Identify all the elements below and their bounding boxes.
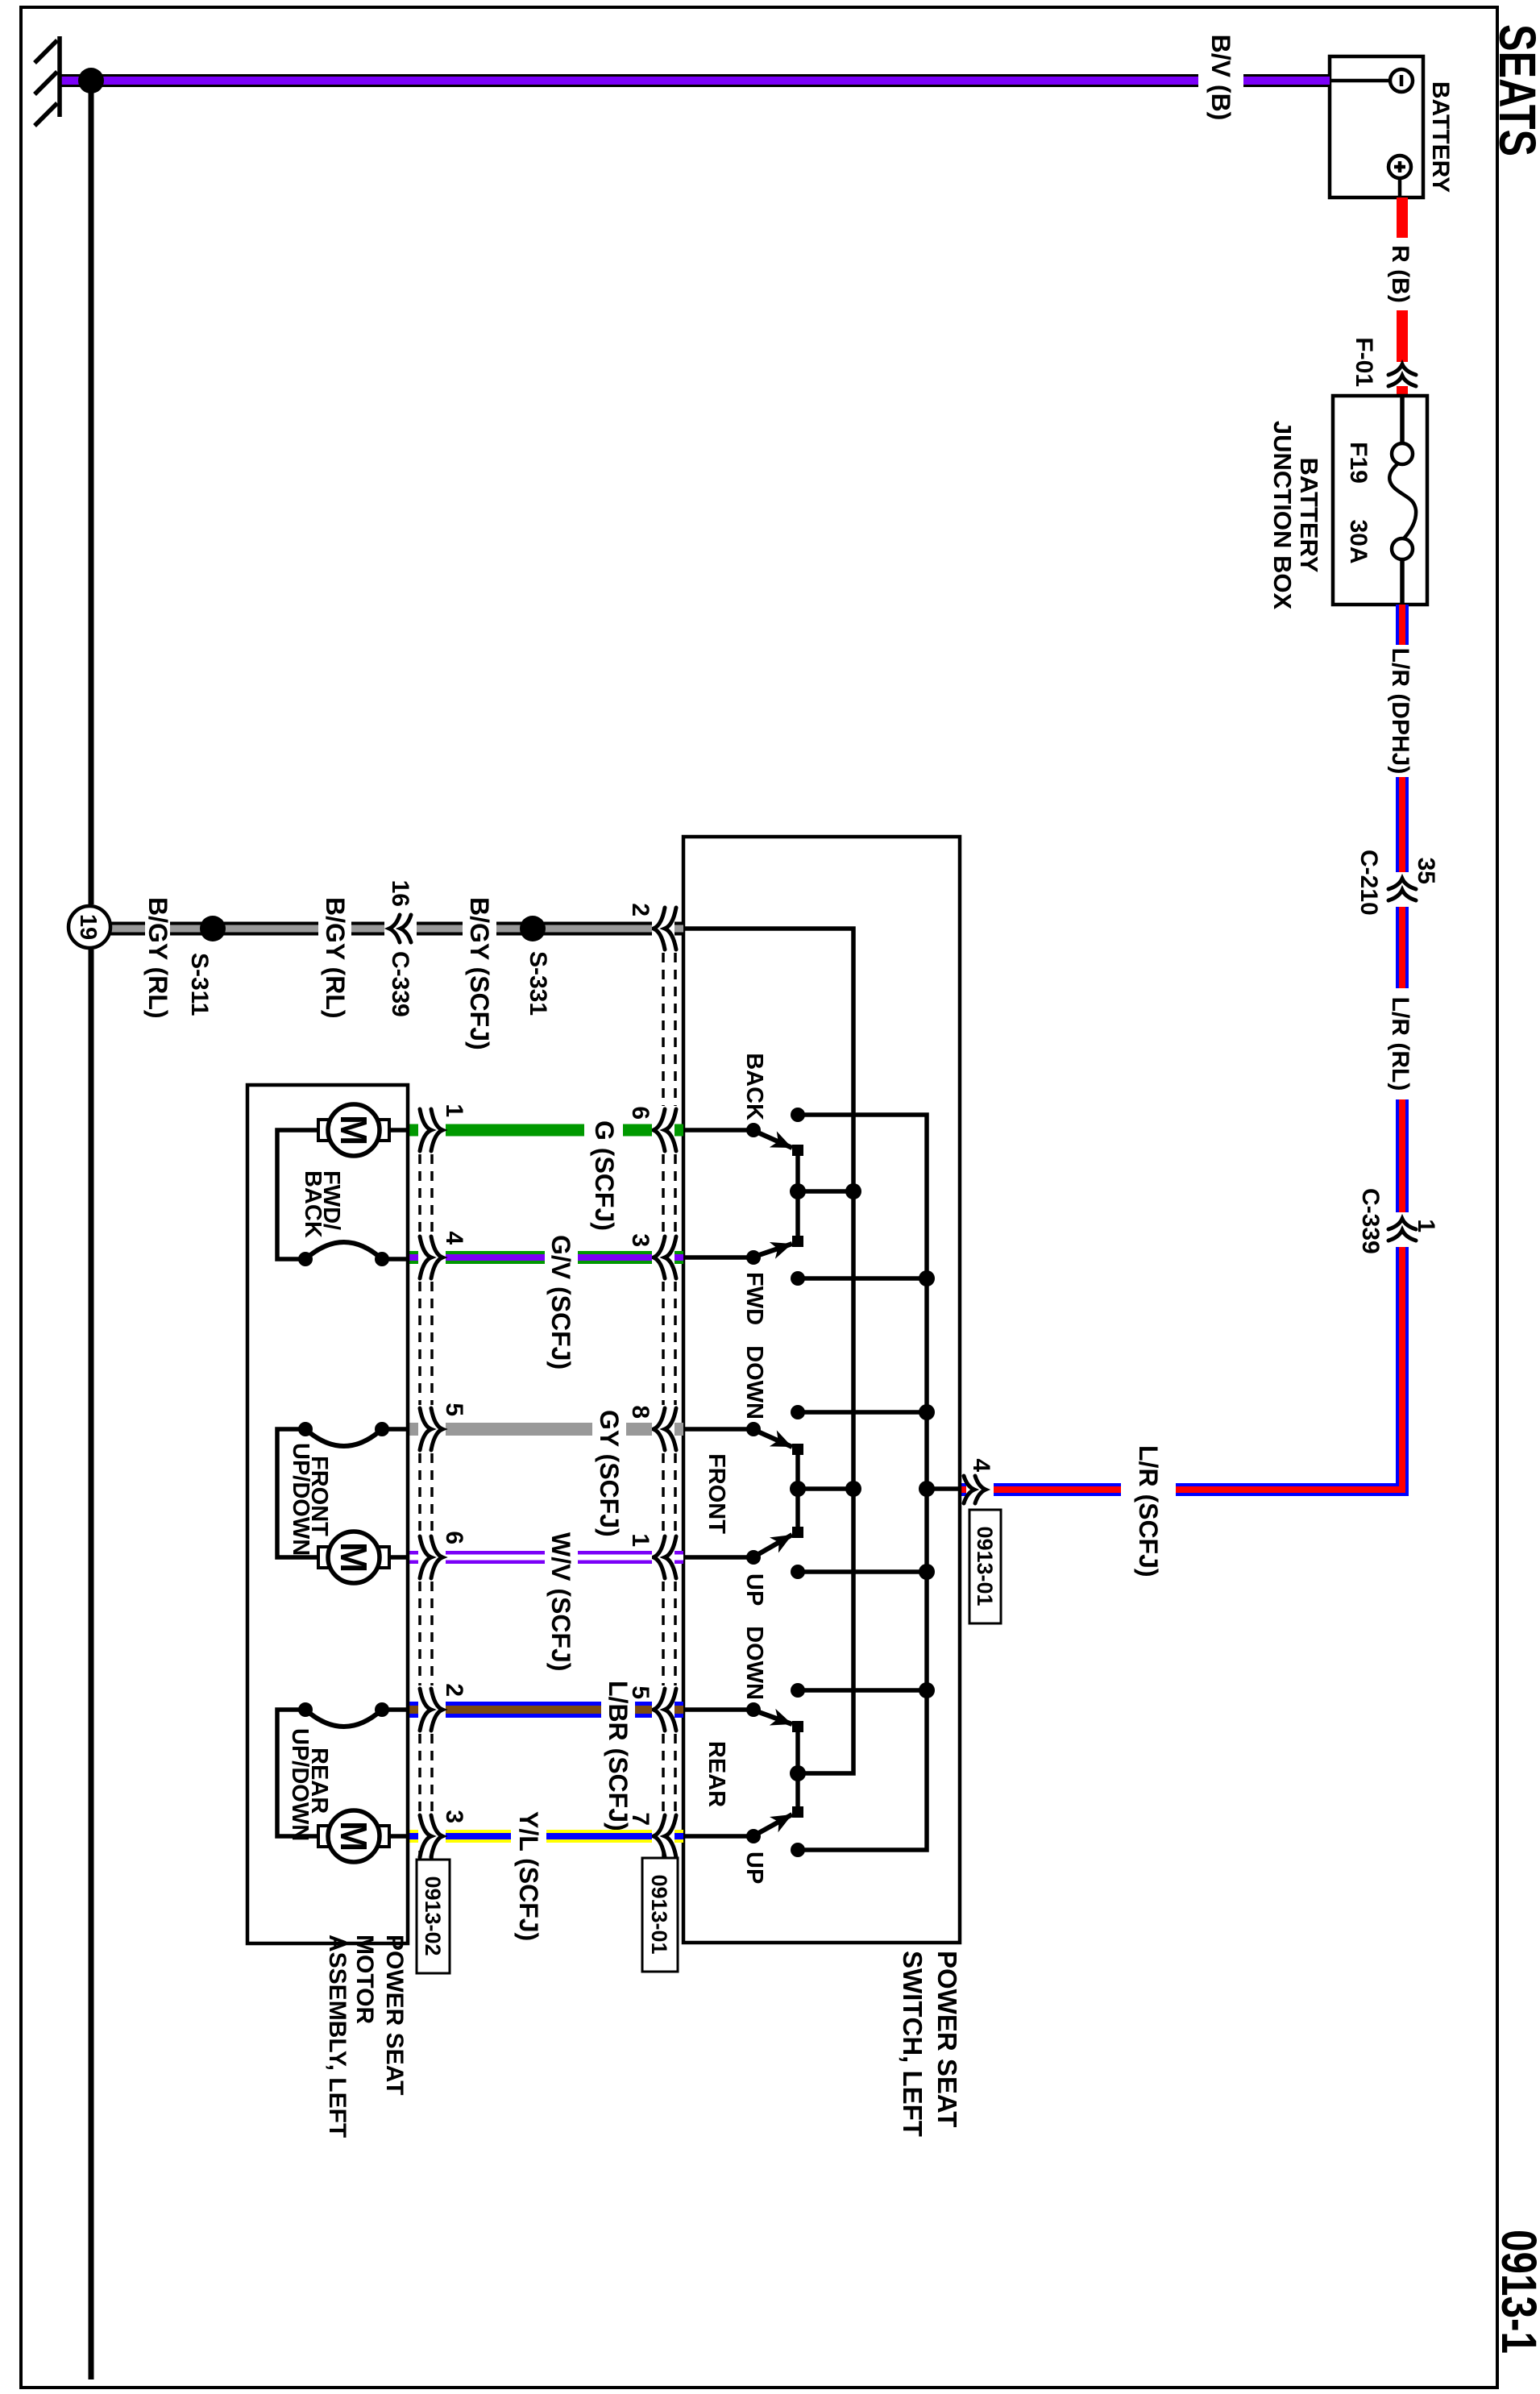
svg-text:C-339: C-339: [1357, 1188, 1384, 1254]
pin chevrons (apex up): [420, 1109, 442, 1857]
svg-text:SWITCH, LEFT: SWITCH, LEFT: [898, 1951, 928, 2137]
wire W/V (SCFJ): [408, 1532, 683, 1671]
svg-text:5: 5: [441, 1403, 467, 1416]
motor M1 FWD/BACK: [277, 1104, 408, 1266]
pin chevrons (apex down): [654, 908, 676, 1857]
svg-text:4: 4: [441, 1231, 467, 1245]
svg-text:30A: 30A: [1345, 519, 1372, 563]
connector F-01: [1351, 337, 1416, 387]
svg-text:SEATS: SEATS: [1488, 24, 1540, 156]
fuse F19 30A: [1345, 396, 1416, 605]
wire open contact lines: [798, 1276, 927, 1281]
svg-text:3: 3: [627, 1233, 654, 1247]
battery BATTERY: [1330, 56, 1454, 197]
reference box 0913-02: [417, 1860, 450, 1973]
wire Y/L (SCFJ): [408, 1811, 683, 1941]
junction dots: [790, 1183, 935, 1781]
svg-text:G/V (SCFJ): G/V (SCFJ): [546, 1235, 575, 1369]
svg-text:0913-1: 0913-1: [1492, 2230, 1540, 2354]
common bars: [795, 1150, 800, 1241]
svg-text:8: 8: [627, 1405, 654, 1419]
svg-text:F19: F19: [1345, 442, 1372, 484]
svg-text:GY (SCFJ): GY (SCFJ): [595, 1410, 624, 1537]
svg-text:F-01: F-01: [1351, 337, 1377, 387]
svg-text:1: 1: [1413, 1219, 1439, 1232]
svg-text:POWER SEAT: POWER SEAT: [381, 1935, 408, 2095]
wire R (B) red battery positive: [1387, 197, 1413, 396]
power seat motor assembly box: [247, 1085, 408, 1943]
wire riser switch2 common: [798, 1486, 853, 1491]
svg-text:POWER SEAT: POWER SEAT: [932, 1951, 962, 2127]
svg-text:L/BR (SCFJ): L/BR (SCFJ): [604, 1681, 633, 1831]
battery junction box: [1268, 396, 1427, 609]
svg-text:C-210: C-210: [1355, 850, 1382, 916]
wire riser switch1 common: [798, 1189, 853, 1194]
svg-text:6: 6: [441, 1531, 467, 1544]
svg-text:BACK: BACK: [300, 1170, 326, 1238]
svg-text:REAR: REAR: [704, 1741, 729, 1807]
splice S-331: [520, 916, 546, 941]
splice S-311: [200, 916, 226, 941]
svg-text:ASSEMBLY, LEFT: ASSEMBLY, LEFT: [324, 1935, 351, 2138]
wire L/R (SCFJ): [960, 1247, 1402, 1577]
svg-text:UP: UP: [741, 1573, 767, 1606]
wire L/R (DPHJ): [1387, 605, 1413, 872]
svg-text:FRONT: FRONT: [704, 1453, 729, 1534]
svg-text:DOWN: DOWN: [741, 1345, 767, 1419]
motor M3 REAR UP/DOWN: [277, 1702, 408, 1862]
connector pin 4 of power seat switch: [964, 1458, 994, 1503]
svg-text:2: 2: [627, 903, 654, 916]
svg-text:R (B): R (B): [1387, 245, 1413, 303]
svg-text:16: 16: [387, 880, 413, 907]
svg-text:B/GY (RL): B/GY (RL): [321, 897, 350, 1019]
svg-text:DOWN: DOWN: [741, 1626, 767, 1700]
wire feed stub pin4: [927, 1486, 959, 1491]
connector C-339 pin 16 (ground wire): [387, 880, 413, 1017]
reference box 0913-01 (pin 4): [969, 1510, 1001, 1623]
svg-text:L/R (SCFJ): L/R (SCFJ): [1134, 1445, 1163, 1577]
svg-text:MOTOR: MOTOR: [351, 1935, 378, 2024]
switch levers: [754, 1131, 792, 1835]
svg-text:4: 4: [968, 1458, 994, 1472]
ground: [35, 36, 60, 126]
svg-text:UP/DOWN: UP/DOWN: [287, 1728, 313, 1841]
svg-text:0913-01: 0913-01: [973, 1526, 997, 1606]
bar end squares: [792, 1145, 803, 1156]
wire GY (SCFJ): [408, 1410, 683, 1537]
svg-text:B/GY (RL): B/GY (RL): [143, 897, 172, 1019]
wire ground bus: [89, 81, 94, 904]
motor M2 FRONT UP/DOWN: [277, 1422, 408, 1583]
svg-text:C-339: C-339: [387, 951, 413, 1017]
svg-text:W/V (SCFJ): W/V (SCFJ): [546, 1532, 575, 1671]
svg-text:BACK: BACK: [741, 1053, 767, 1120]
svg-text:M: M: [333, 1115, 375, 1145]
svg-text:19: 19: [75, 914, 101, 940]
node ground-bus junction: [78, 68, 104, 94]
svg-text:UP/DOWN: UP/DOWN: [288, 1443, 313, 1556]
connector C-339 pin 1: [1357, 1188, 1439, 1254]
wire G (SCFJ): [408, 1120, 683, 1231]
svg-text:B/V (B): B/V (B): [1206, 35, 1235, 121]
svg-text:35: 35: [1413, 858, 1439, 884]
svg-text:S-331: S-331: [525, 951, 551, 1016]
wire G/V (SCFJ): [408, 1235, 683, 1369]
svg-text:JUNCTION BOX: JUNCTION BOX: [1268, 421, 1297, 610]
wire L/BR (SCFJ): [408, 1681, 683, 1831]
svg-text:M: M: [333, 1821, 375, 1852]
node 19 ground circle: [68, 906, 110, 948]
wire L/R (RL): [1387, 907, 1413, 1212]
wire bus B: [798, 1115, 927, 1850]
wire pin2 ground riser + bus A: [683, 929, 853, 1773]
svg-text:UP: UP: [741, 1852, 767, 1884]
svg-text:S-311: S-311: [186, 953, 213, 1016]
svg-text:FWD: FWD: [741, 1272, 767, 1325]
svg-text:M: M: [333, 1542, 375, 1573]
svg-text:0913-02: 0913-02: [421, 1876, 445, 1956]
wire B/GY (SCFJ)/(RL) ground chain: [110, 897, 683, 1050]
svg-text:6: 6: [627, 1106, 654, 1120]
connector C-210 pin 35: [1355, 850, 1439, 916]
svg-text:3: 3: [441, 1810, 467, 1823]
svg-text:Y/L (SCFJ): Y/L (SCFJ): [514, 1811, 543, 1941]
svg-text:L/R (DPHJ): L/R (DPHJ): [1387, 648, 1413, 775]
svg-text:2: 2: [441, 1683, 467, 1697]
contact dots: [746, 1108, 805, 1857]
svg-text:BATTERY: BATTERY: [1427, 81, 1454, 193]
svg-text:1: 1: [441, 1103, 467, 1117]
reference box 0913-01 (switch connector): [642, 1858, 678, 1972]
svg-text:1: 1: [627, 1533, 654, 1547]
svg-text:0913-01: 0913-01: [647, 1874, 671, 1954]
svg-text:L/R (RL): L/R (RL): [1387, 997, 1413, 1091]
wire switch pin stubs: [683, 1128, 753, 1133]
svg-text:G (SCFJ): G (SCFJ): [590, 1120, 619, 1231]
power seat switch box: [683, 837, 960, 1943]
svg-text:BATTERY: BATTERY: [1295, 458, 1323, 573]
wire B/V (B) purple battery negative to ground: [60, 35, 1330, 121]
svg-text:B/GY (SCFJ): B/GY (SCFJ): [465, 897, 494, 1050]
